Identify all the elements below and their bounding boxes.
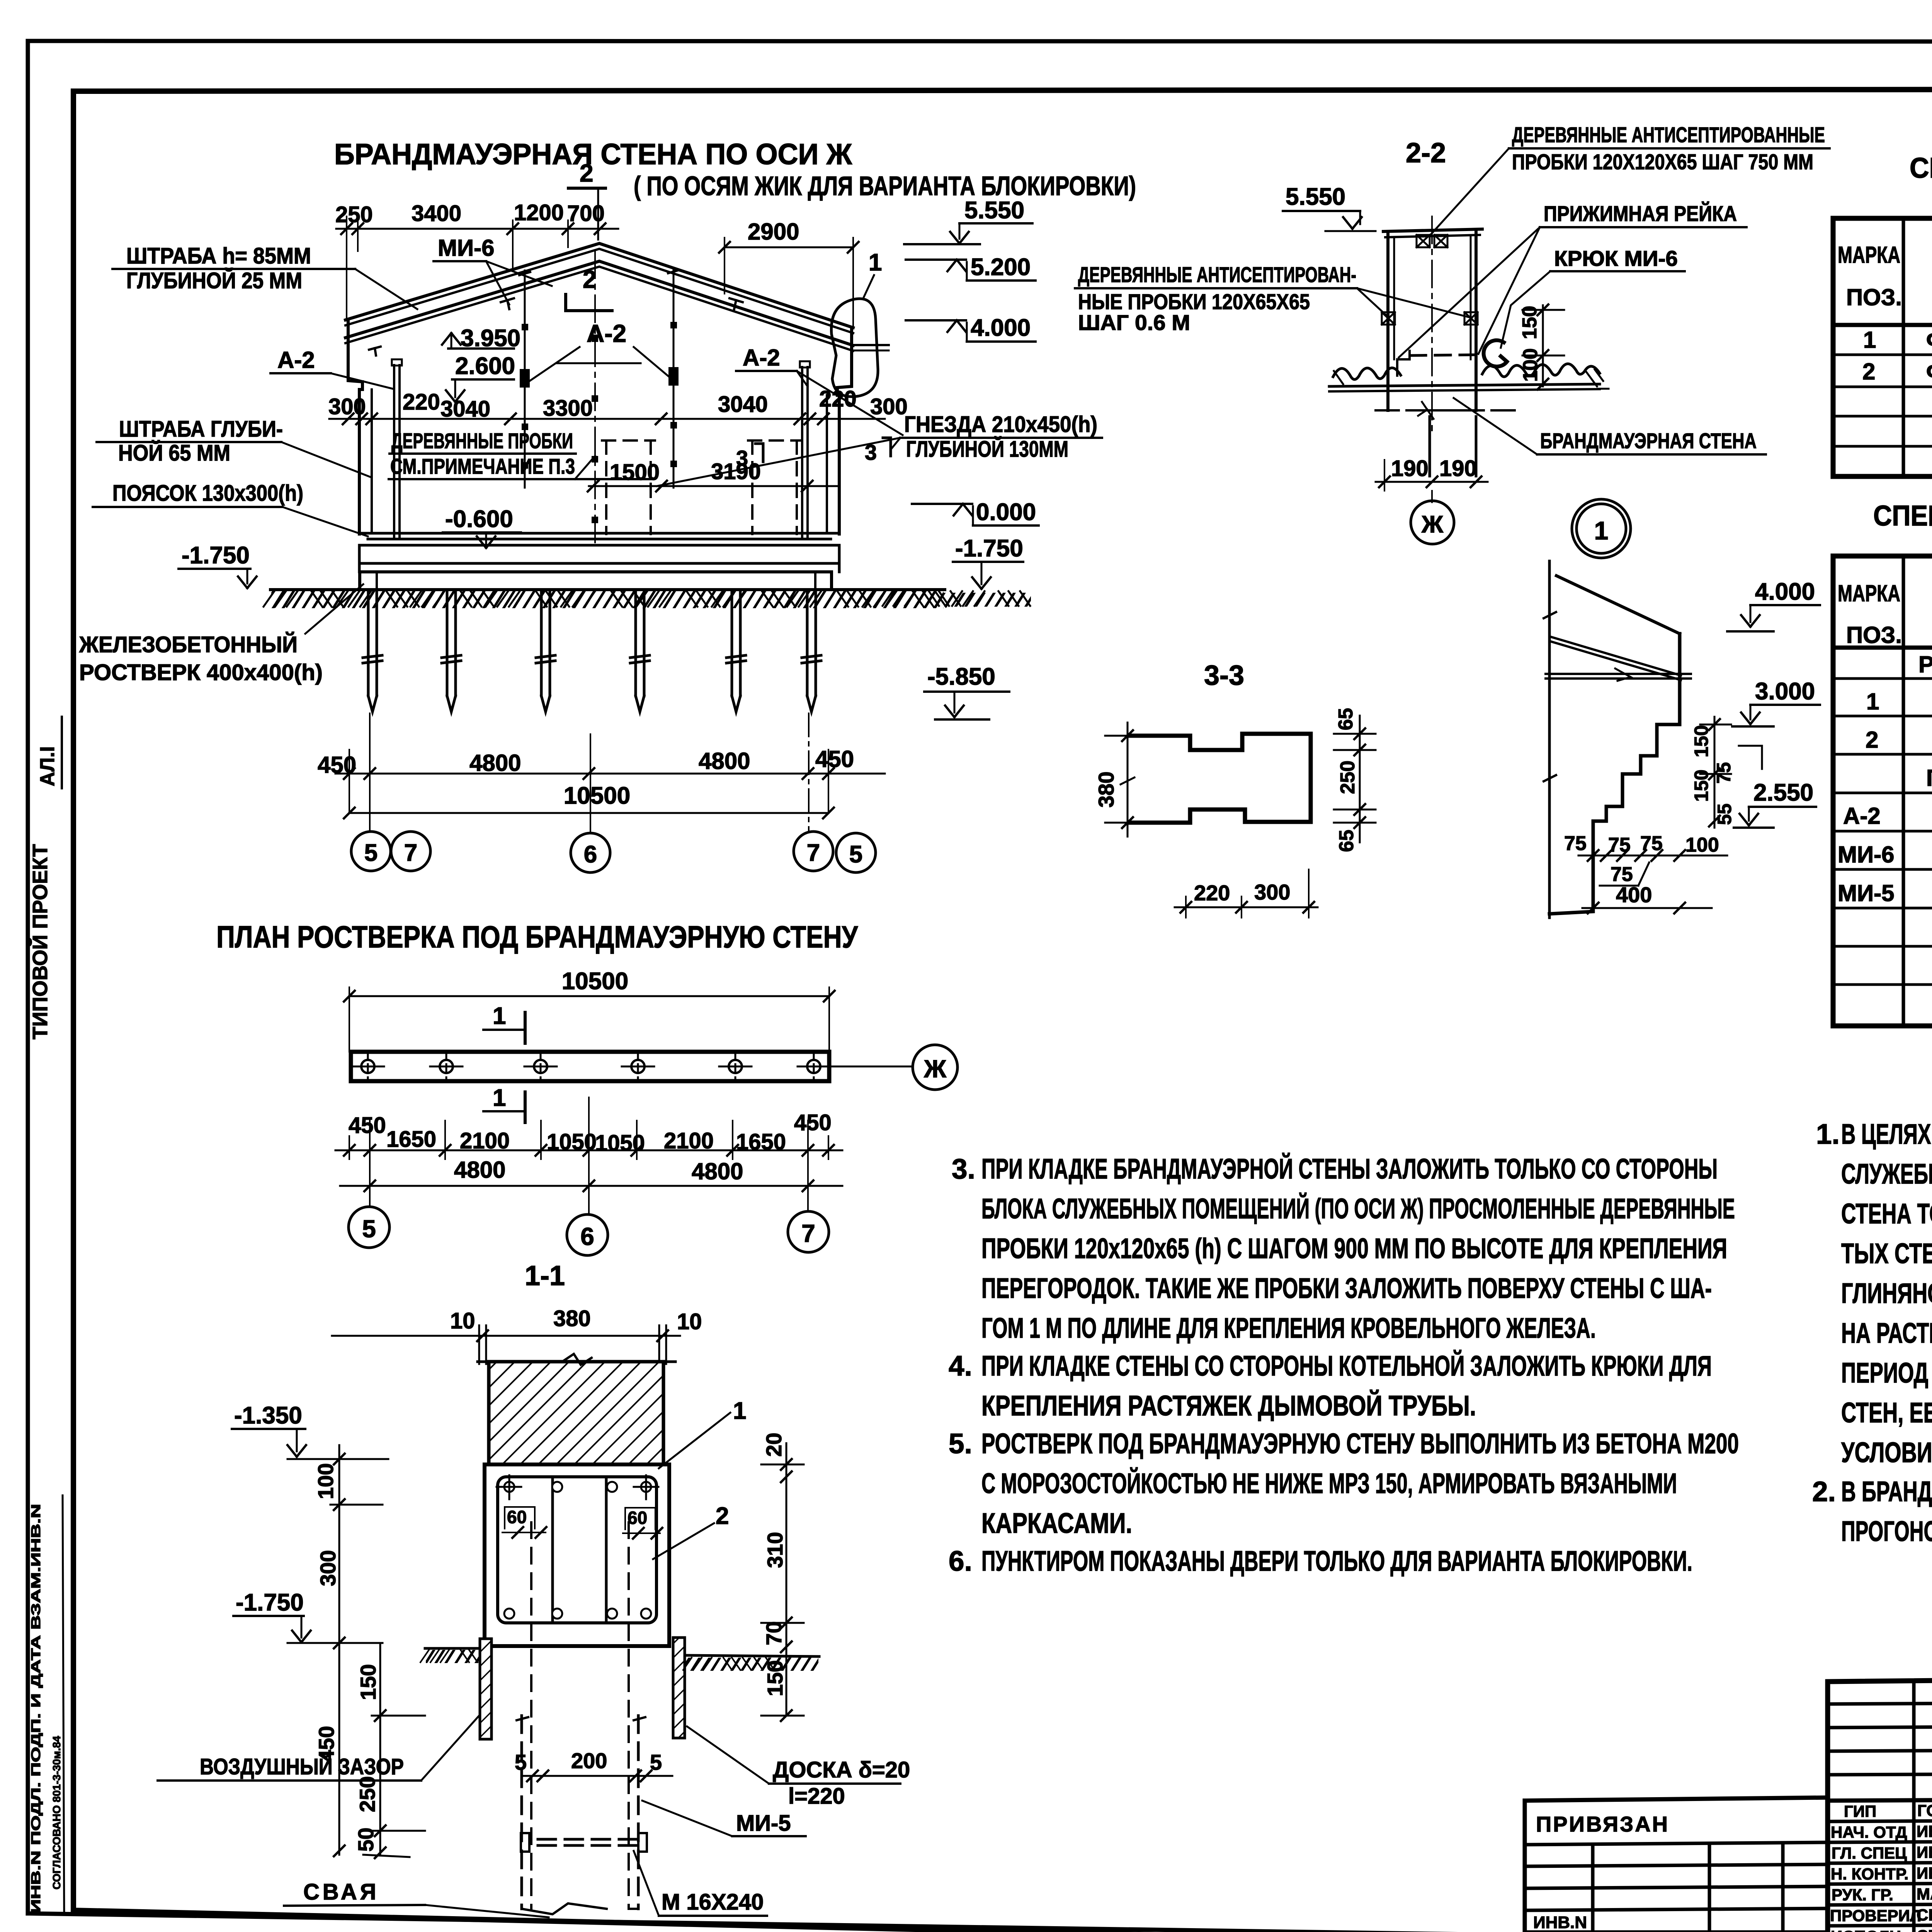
svg-text:250: 250 — [335, 202, 373, 227]
svg-text:5: 5 — [849, 841, 862, 868]
svg-text:НА РАСТВОРЕ М 50. ВОЗВЕДЕНИЕ: НА РАСТВОРЕ М 50. ВОЗВЕДЕНИЕ БРАНДМАУЭРН… — [1841, 1317, 1932, 1349]
label МИ-6 with leaders — [434, 235, 552, 304]
svg-text:-1.750: -1.750 — [236, 1589, 304, 1616]
dim chain 450/4800/4800/450 — [318, 746, 885, 811]
svg-text:3.: 3. — [952, 1153, 975, 1185]
svg-text:МИ-5: МИ-5 — [1838, 880, 1894, 906]
svg-text:ПЛАН РОСТВЕРКА ПОД БРАНДМАУЭРН: ПЛАН РОСТВЕРКА ПОД БРАНДМАУЭРНУЮ СТЕНУ — [216, 920, 858, 954]
svg-text:5: 5 — [650, 1750, 662, 1774]
svg-text:2.550: 2.550 — [1753, 779, 1813, 806]
svg-text:2100: 2100 — [664, 1128, 714, 1153]
svg-text:ИВАНОВ Ю.И: ИВАНОВ Ю.И — [1917, 1843, 1932, 1861]
svg-text:2: 2 — [1866, 727, 1878, 753]
label Доска б=20 l=220 — [687, 1726, 910, 1809]
roof small t-marks — [369, 298, 743, 355]
1-1 side boards — [480, 1638, 685, 1739]
2-2 roofing wavy sheets — [1329, 364, 1609, 391]
left margin rotated captions — [28, 746, 63, 1913]
svg-text:МАРАКУШИНА: МАРАКУШИНА — [1917, 1885, 1932, 1903]
2-2 label Деревянные антисептированные пробки 120х120х65 шаг 750мм — [1430, 122, 1830, 236]
plan axis circle 5 — [349, 1207, 389, 1248]
3-3 tongue-groove beam profile — [1129, 734, 1311, 823]
svg-text:СОГЛАСОВАНО 801-3-30м.84: СОГЛАСОВАНО 801-3-30м.84 — [51, 1736, 63, 1889]
svg-text:6.: 6. — [949, 1546, 972, 1577]
svg-text:1650: 1650 — [736, 1129, 786, 1155]
dashed door opening left (variant) — [602, 440, 655, 534]
svg-text:2-2: 2-2 — [1406, 138, 1446, 168]
svg-text:ИНВ.N ПОДЛ. ПОДП. И ДАТА ВЗА: ИНВ.N ПОДЛ. ПОДП. И ДАТА ВЗАМ.ИНВ.N — [29, 1504, 43, 1913]
svg-text:-1.750: -1.750 — [182, 542, 250, 569]
detail 1 elevation 4.000 — [1727, 578, 1820, 631]
svg-text:300: 300 — [1254, 880, 1290, 904]
table1 header texts — [1838, 242, 1932, 314]
svg-text:СТЕН, ЕЕ НЕОБХОДИМО ВРЕМЕННО: СТЕН, ЕЕ НЕОБХОДИМО ВРЕМЕННО РАСКРЕПИТЬ.… — [1841, 1397, 1932, 1429]
svg-text:МИ-6: МИ-6 — [1838, 842, 1894, 867]
svg-text:450: 450 — [815, 746, 854, 772]
svg-text:4800: 4800 — [469, 750, 521, 776]
svg-text:300: 300 — [870, 394, 908, 419]
svg-text:ИНВ.N: ИНВ.N — [1533, 1913, 1587, 1932]
1-1 left dim column 100/300/450 — [313, 1445, 383, 1856]
elevation mark 5.200 — [906, 254, 1036, 281]
svg-text:10: 10 — [677, 1309, 702, 1334]
svg-text:СТЕНА ТОЛЩИНОЙ 380 ММ, ВЫСТУП: СТЕНА ТОЛЩИНОЙ 380 ММ, ВЫСТУПАЮЩАЯ ЗА НА… — [1841, 1198, 1932, 1230]
svg-text:75: 75 — [1608, 834, 1631, 856]
svg-text:А-2: А-2 — [743, 345, 780, 371]
svg-text:ДЕРЕВЯННЫЕ АНТИСЕПТИРОВАННЫЕ: ДЕРЕВЯННЫЕ АНТИСЕПТИРОВАННЫЕ — [1512, 122, 1825, 147]
svg-text:3040: 3040 — [718, 392, 768, 417]
svg-text:УСЛОВИЯХ ВЫПОЛНЯТЬ СОГЛАСНО: УСЛОВИЯХ ВЫПОЛНЯТЬ СОГЛАСНО СНИП III-17-… — [1841, 1437, 1932, 1468]
plan dim 10500 — [344, 968, 835, 1052]
label Штраба h=85мм глубиной 25мм — [112, 243, 417, 309]
svg-text:150: 150 — [763, 1660, 787, 1696]
detail 1 right dim column 150/75/150/55 — [1690, 717, 1762, 828]
svg-text:ДЕРЕВЯННЫЕ ПРОБКИ: ДЕРЕВЯННЫЕ ПРОБКИ — [391, 429, 573, 453]
svg-text:ВОЗДУШНЫЙ ЗАЗОР: ВОЗДУШНЫЙ ЗАЗОР — [200, 1754, 404, 1779]
svg-text:МИ-6: МИ-6 — [438, 235, 494, 261]
svg-text:ИВАНОВ Ю.И: ИВАНОВ Ю.И — [1917, 1864, 1932, 1882]
svg-text:ИВАНОВ Н. Г.: ИВАНОВ Н. Г. — [1917, 1822, 1932, 1840]
plan dim chain 4800/4800 — [340, 1157, 842, 1191]
svg-text:400: 400 — [1616, 883, 1652, 907]
section flag 3 right — [865, 438, 891, 464]
2-2 elevation mark 5.550 — [1283, 184, 1376, 231]
svg-text:3-3: 3-3 — [1204, 660, 1244, 691]
label МИ-5 — [642, 1801, 806, 1836]
svg-text:2900: 2900 — [748, 219, 799, 245]
elevation mark -0.600 inside — [443, 506, 521, 548]
svg-text:МАРКА: МАРКА — [1838, 242, 1900, 268]
svg-text:4800: 4800 — [699, 748, 750, 774]
svg-text:200: 200 — [571, 1748, 607, 1773]
2-2 wall — [1376, 216, 1515, 476]
svg-text:5.: 5. — [949, 1428, 972, 1459]
svg-text:10500: 10500 — [564, 782, 630, 809]
svg-text:1-1: 1-1 — [525, 1260, 565, 1291]
svg-text:( ПО ОСЯМ ЖИК ДЛЯ ВАРИАНТА БЛО: ( ПО ОСЯМ ЖИК ДЛЯ ВАРИАНТА БЛОКИРОВКИ) — [634, 171, 1136, 201]
1-1 leader 2 — [653, 1503, 729, 1559]
label Свая — [284, 1879, 549, 1917]
plan section mark 1 lower — [483, 1085, 525, 1122]
svg-text:310: 310 — [763, 1532, 787, 1568]
label Штраба глубиной 65мм — [97, 417, 371, 477]
svg-text:ПРИЖИМНАЯ РЕЙКА: ПРИЖИМНАЯ РЕЙКА — [1544, 201, 1737, 226]
svg-text:60: 60 — [628, 1508, 647, 1528]
svg-text:4800: 4800 — [454, 1157, 505, 1183]
svg-text:ПРОГОНОВ ЗАЛОЖИТЬ АНКЕР А-2: ПРОГОНОВ ЗАЛОЖИТЬ АНКЕР А-2 СМОТРИ ФРАГМ… — [1841, 1516, 1932, 1547]
svg-text:ШТРАБА ГЛУБИ-: ШТРАБА ГЛУБИ- — [119, 417, 283, 442]
leader to axis Ж circle — [829, 1045, 957, 1090]
2-2 dim 190/190 — [1376, 456, 1488, 491]
1-1 left elevation mark -1.350 — [232, 1402, 388, 1459]
1-1 bolt M16x240 dashed — [521, 1833, 647, 1852]
section mark 2 top — [568, 159, 605, 240]
svg-text:Н. КОНТР.: Н. КОНТР. — [1831, 1865, 1908, 1883]
detail circle 1 (double ring) — [1572, 499, 1631, 558]
1-1 right dim column 20/310/70/150 — [761, 1433, 804, 1721]
svg-text:450: 450 — [318, 752, 356, 778]
2-2 label Брандмауэрная стена — [1454, 398, 1766, 454]
svg-text:1.: 1. — [1816, 1119, 1840, 1150]
svg-text:ПРИ КЛАДКЕ СТЕНЫ СО СТОРОНЫ: ПРИ КЛАДКЕ СТЕНЫ СО СТОРОНЫ КОТЕЛЬНОЙ ЗА… — [981, 1350, 1712, 1382]
elevation mark 3.950 inside — [442, 325, 520, 352]
1-1 rebar cage — [497, 1475, 658, 1623]
svg-text:АЛ.I: АЛ.I — [36, 746, 59, 786]
svg-text:l=220: l=220 — [788, 1784, 845, 1809]
svg-text:150: 150 — [1690, 770, 1712, 802]
svg-text:ШАГ 0.6 М: ШАГ 0.6 М — [1078, 310, 1190, 335]
svg-text:4.: 4. — [949, 1350, 972, 1382]
wall base belt (поясок) triple lines — [359, 533, 839, 545]
elevation mark 0.000 — [912, 499, 1039, 526]
title block roles and names — [1830, 1801, 1932, 1932]
svg-text:3.000: 3.000 — [1755, 678, 1815, 705]
svg-text:450: 450 — [349, 1113, 386, 1138]
elevation mark -5.850 — [924, 663, 1009, 719]
plan axis circle 7 — [788, 1211, 829, 1252]
section mark 2 below ridge — [566, 265, 612, 311]
svg-text:65: 65 — [1335, 708, 1357, 730]
svg-text:1: 1 — [493, 1085, 506, 1111]
ground line with hatch — [264, 590, 946, 607]
pile symbols in plan — [352, 1051, 830, 1082]
svg-text:5: 5 — [362, 1215, 376, 1243]
detail 1 dim 400 — [1582, 883, 1712, 913]
svg-text:2: 2 — [716, 1503, 729, 1529]
dim chain 300/220/3040/3300/3040/220/300 — [328, 386, 908, 424]
svg-text:ПРИ КЛАДКЕ БРАНДМАУЭРНОЙ СТ: ПРИ КЛАДКЕ БРАНДМАУЭРНОЙ СТЕНЫ ЗАЛОЖИТЬ … — [981, 1153, 1718, 1185]
svg-text:100: 100 — [1519, 348, 1542, 382]
interior anchor column right with wooden plug squares — [668, 269, 679, 488]
svg-text:70: 70 — [762, 1621, 786, 1645]
axis circle 6 center — [571, 833, 610, 872]
svg-text:-5.850: -5.850 — [927, 663, 995, 690]
svg-text:7: 7 — [404, 840, 417, 866]
plan axis lines to circles — [370, 1097, 808, 1214]
2-2 label Деревянные антисептированные пробки 120х65х65 шаг 0.6м — [1075, 262, 1471, 335]
1-1 leader 1 — [659, 1398, 746, 1468]
svg-text:1: 1 — [493, 1003, 506, 1029]
elevation mark 2.600 inside — [446, 353, 515, 402]
svg-text:75: 75 — [1640, 832, 1663, 855]
svg-text:2100: 2100 — [460, 1128, 510, 1153]
svg-text:РОСТВЕРК ПОД БРАНДМАУЭРНУЮ СТЕ: РОСТВЕРК ПОД БРАНДМАУЭРНУЮ СТЕНУ — [1918, 651, 1932, 677]
svg-text:20: 20 — [762, 1433, 786, 1457]
svg-text:В ЦЕЛЯХ ПРОТИВОПОЖАРНОЙ БЕЗ: В ЦЕЛЯХ ПРОТИВОПОЖАРНОЙ БЕЗОПАСНОСТИ МЕЖ… — [1841, 1118, 1932, 1150]
label воздушный зазор — [158, 1716, 479, 1781]
svg-text:ПЕРЕГОРОДОК. ТАКИЕ ЖЕ ПРОБКИ: ПЕРЕГОРОДОК. ТАКИЕ ЖЕ ПРОБКИ ЗАЛОЖИТЬ ПО… — [981, 1273, 1712, 1304]
A-2 label left — [270, 347, 393, 389]
svg-text:150: 150 — [1519, 306, 1541, 339]
svg-text:0.000: 0.000 — [976, 499, 1036, 526]
svg-text:250: 250 — [1337, 760, 1359, 794]
svg-text:1: 1 — [733, 1398, 746, 1424]
svg-text:ГЛУБИНОЙ 25 ММ: ГЛУБИНОЙ 25 ММ — [126, 268, 302, 293]
grillage beam plan rectangle — [351, 1052, 829, 1081]
left pilaster (anchor A-2 strip) — [389, 359, 404, 539]
dim 2900 — [719, 219, 859, 328]
1-1 top dims 10/380/10 — [332, 1306, 702, 1364]
svg-text:100: 100 — [1685, 834, 1719, 856]
svg-text:МИ-5: МИ-5 — [736, 1811, 791, 1836]
svg-text:1200: 1200 — [514, 200, 564, 225]
svg-text:6: 6 — [580, 1223, 594, 1250]
svg-text:60: 60 — [507, 1507, 527, 1527]
svg-text:ГОСТ 7798-70*: ГОСТ 7798-70* — [1926, 765, 1932, 791]
svg-text:ГОМ 1 М ПО ДЛИНЕ ДЛЯ КРЕПЛЕН: ГОМ 1 М ПО ДЛИНЕ ДЛЯ КРЕПЛЕНИЯ КРОВЕЛЬНО… — [981, 1313, 1596, 1344]
svg-text:КАРКАСАМИ.: КАРКАСАМИ. — [981, 1508, 1132, 1539]
1-1 "60" mini dims — [502, 1507, 662, 1539]
svg-text:СМ.ПРИМЕЧАНИЕ П.3: СМ.ПРИМЕЧАНИЕ П.3 — [390, 454, 575, 478]
table1 row 2 — [1862, 341, 1932, 397]
svg-text:1: 1 — [1594, 516, 1609, 545]
svg-text:ГЛУБИНОЙ 130ММ: ГЛУБИНОЙ 130ММ — [906, 437, 1068, 462]
svg-text:1650: 1650 — [386, 1127, 436, 1152]
svg-text:300: 300 — [328, 394, 366, 419]
svg-text:1: 1 — [869, 249, 882, 276]
svg-text:3040: 3040 — [440, 396, 490, 422]
svg-text:ПРОБКИ 120Х120Х65 ШАГ 750 ММ: ПРОБКИ 120Х120Х65 ШАГ 750 ММ — [1512, 150, 1813, 174]
svg-text:СПЕЦИФИКАЦИЯ СТЕРЖНЕЙ НА 1: СПЕЦИФИКАЦИЯ СТЕРЖНЕЙ НА 1 ЭЛЕМЕНТ — [1910, 151, 1932, 184]
2-2 label Крюк МИ-6 — [1501, 246, 1685, 348]
svg-text:ЖЕЛЕЗОБЕТОННЫЙ: ЖЕЛЕЗОБЕТОННЫЙ — [79, 632, 298, 657]
svg-text:ГЛ. СПЕЦ: ГЛ. СПЕЦ — [1832, 1844, 1907, 1862]
svg-text:ГЛИНЯНОГО КИРПИЧА МАРКИ 100: ГЛИНЯНОГО КИРПИЧА МАРКИ 100 С МОРОЗОСТОЙ… — [1841, 1277, 1932, 1309]
svg-text:190: 190 — [1439, 456, 1477, 481]
svg-text:150: 150 — [1690, 725, 1712, 757]
elevation title — [334, 138, 1136, 201]
detail 1 elevation 2.550 — [1734, 779, 1816, 828]
svg-text:ПРИВЯЗАН: ПРИВЯЗАН — [1536, 1812, 1669, 1836]
svg-text:50: 50 — [354, 1828, 378, 1852]
3-3 right dims 65/250/65 — [1334, 708, 1376, 852]
2-2 dashed rail line — [1397, 351, 1480, 376]
right gable wall edge — [827, 328, 852, 534]
svg-text:СМОЛЕНКОВА: СМОЛЕНКОВА — [1917, 1927, 1932, 1932]
svg-text:ШТРАБА h= 85ММ: ШТРАБА h= 85ММ — [126, 243, 311, 269]
label Железобетонный ростверк 400x400(h) — [79, 584, 363, 685]
svg-text:ДЕРЕВЯННЫЕ АНТИСЕПТИРОВАН-: ДЕРЕВЯННЫЕ АНТИСЕПТИРОВАН- — [1078, 262, 1356, 287]
svg-text:300: 300 — [316, 1550, 340, 1586]
svg-text:6: 6 — [584, 841, 597, 868]
svg-text:75: 75 — [1564, 832, 1587, 855]
axis circle 5 left — [351, 832, 391, 871]
table2 grid — [1833, 556, 1932, 1026]
svg-text:ГНЕЗДА 210х450(h): ГНЕЗДА 210х450(h) — [904, 412, 1097, 437]
svg-text:СПЕЦИФИКАЦИЯ ЭЛЕМЕНТОВ И МА: СПЕЦИФИКАЦИЯ ЭЛЕМЕНТОВ И МАТЕРИАЛОВ НА Л… — [1873, 500, 1932, 532]
detail 1 wall edge — [1544, 561, 1556, 918]
detail 1 callout blob at right eave — [831, 249, 882, 397]
svg-text:СЕРГУНОВА: СЕРГУНОВА — [1917, 1906, 1932, 1924]
svg-text:ТИПОВОЙ ПРОЕКТ: ТИПОВОЙ ПРОЕКТ — [28, 844, 52, 1039]
right pilaster (anchor A-2 strip) — [798, 361, 812, 539]
A-2 label center with leaders — [530, 320, 670, 381]
svg-text:3.950: 3.950 — [461, 325, 520, 352]
table2 rows text — [1838, 651, 1932, 1021]
svg-text:Ж: Ж — [1421, 511, 1444, 538]
detail 1 dim 75 with bracket — [1600, 862, 1649, 886]
1-1 ground lines — [420, 1648, 819, 1670]
left gable wall edge — [348, 319, 372, 534]
3-3 bottom dim 220/300 — [1175, 869, 1318, 918]
svg-text:А-2: А-2 — [277, 347, 315, 373]
plan dim chain 450/1650/2100/1050/1050/2100/1650/450 — [335, 1110, 842, 1159]
1-1 pile below — [517, 1716, 645, 1914]
svg-text:БРАНДМАУЭРНАЯ СТЕНА: БРАНДМАУЭРНАЯ СТЕНА — [1540, 429, 1757, 453]
2-2 top plug squares — [1382, 235, 1478, 325]
label Поясок 130x300(h) — [93, 481, 368, 536]
elevation mark 5.550 — [904, 197, 1032, 244]
svg-text:Ф 6 А I l=1160 ММ: Ф 6 А I l=1160 ММ — [1926, 359, 1932, 384]
lower wall band — [359, 545, 839, 572]
svg-text:380: 380 — [553, 1306, 591, 1331]
3-3 left dim 380 with break — [1094, 723, 1140, 837]
svg-text:10500: 10500 — [562, 968, 628, 995]
piles under elevation — [363, 590, 821, 712]
1-1 left elevation mark -1.750 — [233, 1589, 383, 1643]
svg-text:КРЕПЛЕНИЯ РАСТЯЖЕК ДЫМОВОЙ Т: КРЕПЛЕНИЯ РАСТЯЖЕК ДЫМОВОЙ ТРУБЫ. — [981, 1390, 1476, 1422]
svg-text:ПУНКТИРОМ ПОКАЗАНЫ ДВЕРИ ТО: ПУНКТИРОМ ПОКАЗАНЫ ДВЕРИ ТОЛЬКО ДЛЯ ВАРИ… — [981, 1546, 1692, 1577]
svg-text:10: 10 — [450, 1308, 475, 1333]
title block outer — [1828, 1673, 1932, 1932]
svg-text:ПЕРИОД РУБКИ СТЕН. ПРИ ВОЗВЕД: ПЕРИОД РУБКИ СТЕН. ПРИ ВОЗВЕДЕНИИ СТЕНЫ,… — [1841, 1357, 1932, 1389]
grillage plinth band — [360, 572, 832, 590]
detail 1 roof slope — [1546, 576, 1691, 681]
svg-text:В БРАНДМАУЭРНОЙ СТЕНЕ В МЕ: В БРАНДМАУЭРНОЙ СТЕНЕ В МЕСТАХ ОПИРАНИЯ … — [1841, 1476, 1932, 1507]
svg-text:4800: 4800 — [692, 1158, 743, 1184]
axis circle 5 right — [836, 833, 876, 872]
svg-text:1500: 1500 — [610, 460, 660, 485]
svg-text:РОСТВЕРК 400х400(h): РОСТВЕРК 400х400(h) — [79, 660, 323, 685]
svg-text:450: 450 — [794, 1110, 832, 1135]
svg-text:С МОРОЗОСТОЙКОСТЬЮ НЕ НИЖЕ: С МОРОЗОСТОЙКОСТЬЮ НЕ НИЖЕ МРЗ 150, АРМИ… — [981, 1468, 1677, 1499]
elevation mark -1.750 left — [179, 542, 257, 588]
svg-text:5: 5 — [515, 1750, 527, 1774]
detail 1 stepped outline — [1549, 634, 1680, 914]
1-1 dashed pile axes — [531, 1522, 629, 1909]
svg-text:М 16Х240: М 16Х240 — [662, 1889, 764, 1915]
svg-text:4.000: 4.000 — [971, 315, 1031, 341]
svg-text:5: 5 — [364, 840, 378, 866]
interior anchor column left with wooden plug squares — [519, 270, 530, 488]
svg-text:4.000: 4.000 — [1755, 578, 1815, 605]
svg-text:ИСПОЛН.: ИСПОЛН. — [1831, 1927, 1906, 1932]
svg-text:700: 700 — [567, 201, 605, 226]
svg-text:Ф 14 А: Ф 14 А — [1926, 327, 1932, 353]
svg-text:220: 220 — [1194, 881, 1230, 905]
svg-text:СЛУЖЕБНЫХ ПОМЕЩЕНИЙ УСТРАИВА: СЛУЖЕБНЫХ ПОМЕЩЕНИЙ УСТРАИВАЕТСЯ КИРПИЧН… — [1841, 1158, 1932, 1190]
1-1 inner dim column 150/250/50 — [354, 1643, 425, 1858]
svg-text:Ж: Ж — [923, 1055, 947, 1083]
svg-text:ГОРБАЧЕВА: ГОРБАЧЕВА — [1917, 1801, 1932, 1820]
2-2 label Прижимная рейка — [1399, 201, 1747, 357]
svg-text:ПОЯСОК 130х300(h): ПОЯСОК 130х300(h) — [112, 481, 303, 506]
axis circle 7 left — [391, 832, 430, 871]
svg-text:НОЙ 65 ММ: НОЙ 65 ММ — [118, 440, 230, 466]
svg-text:НАЧ. ОТД: НАЧ. ОТД — [1831, 1823, 1907, 1841]
svg-text:А-2: А-2 — [587, 320, 626, 347]
svg-text:СВАЯ: СВАЯ — [303, 1879, 379, 1905]
svg-text:ТЫХ СТЕН НА 300 ММ. КЛАДКА: ТЫХ СТЕН НА 300 ММ. КЛАДКА СТЕН ВЫПОЛНЯЕ… — [1841, 1238, 1932, 1269]
axis extension lines down to circles — [370, 713, 809, 833]
1-1 dim 5/200/5 — [515, 1748, 672, 1781]
svg-text:-1.750: -1.750 — [955, 535, 1023, 562]
svg-text:190: 190 — [1391, 456, 1429, 481]
svg-text:220: 220 — [819, 386, 857, 412]
svg-text:РУК. ГР.: РУК. ГР. — [1832, 1886, 1893, 1904]
2-2 dims 150/100 — [1519, 304, 1564, 389]
table1 grid — [1833, 218, 1932, 476]
table2 header texts — [1838, 580, 1932, 648]
svg-text:1050: 1050 — [595, 1131, 645, 1156]
1-1 brick wall hatched — [478, 1354, 675, 1464]
axis circle 7 right — [794, 832, 833, 871]
svg-text:5.550: 5.550 — [964, 197, 1024, 224]
detail 1 elevation 3.000 — [1732, 678, 1820, 726]
2-2 axis circle Ж — [1411, 491, 1454, 544]
plan section mark 1 upper — [483, 1003, 525, 1043]
svg-text:БРАНДМАУЭРНАЯ СТЕНА ПО ОСИ: БРАНДМАУЭРНАЯ СТЕНА ПО ОСИ Ж — [334, 138, 852, 171]
svg-text:БЛОКА СЛУЖЕБНЫХ ПОМЕЩЕНИЙ (ПО: БЛОКА СЛУЖЕБНЫХ ПОМЕЩЕНИЙ (ПО ОСИ Ж) ПРО… — [981, 1193, 1735, 1225]
1-1 grillage beam outline — [485, 1464, 669, 1646]
svg-text:3400: 3400 — [412, 201, 461, 226]
svg-text:1: 1 — [1866, 689, 1879, 714]
A-2 label right — [736, 345, 903, 435]
2-2 hook МИ-6 — [1484, 340, 1507, 367]
svg-text:РОСТВЕРК ПОД БРАНДМАУЭРНУЮ: РОСТВЕРК ПОД БРАНДМАУЭРНУЮ СТЕНУ ВЫПОЛНИ… — [981, 1428, 1739, 1459]
svg-text:1: 1 — [1863, 327, 1876, 353]
svg-text:7: 7 — [801, 1219, 815, 1247]
svg-text:2.600: 2.600 — [455, 353, 515, 379]
svg-text:ГИП: ГИП — [1844, 1802, 1876, 1820]
svg-text:ПРОБКИ 120х120х65 (h) С ШАГОМ: ПРОБКИ 120х120х65 (h) С ШАГОМ 900 ММ ПО … — [981, 1233, 1727, 1264]
table1 row 1 — [1863, 317, 1932, 354]
svg-text:ПРОВЕРИЛ: ПРОВЕРИЛ — [1830, 1906, 1921, 1925]
svg-text:5.550: 5.550 — [1286, 184, 1345, 210]
svg-text:2: 2 — [580, 159, 594, 187]
svg-text:-1.350: -1.350 — [234, 1402, 302, 1429]
detail 1 bottom dims 75/75/75/100 — [1564, 832, 1727, 861]
dim 10500 elevation — [344, 782, 834, 818]
svg-text:220: 220 — [403, 389, 440, 415]
svg-text:ДОСКА δ=20: ДОСКА δ=20 — [773, 1757, 910, 1782]
svg-text:150: 150 — [356, 1664, 380, 1700]
top dim chain 250/3400/1200/700 — [335, 200, 618, 321]
svg-text:А-2: А-2 — [1843, 803, 1881, 829]
plan axis circle 6 — [567, 1214, 608, 1255]
label Гнезда 210x450(h) глубиной 130мм — [657, 412, 1102, 486]
label Деревянные пробки см.примечание п.3 — [389, 429, 652, 479]
